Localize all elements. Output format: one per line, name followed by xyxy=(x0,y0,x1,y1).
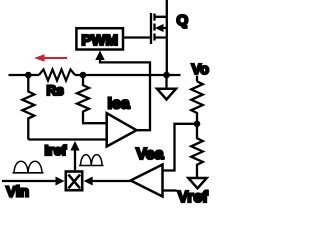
wire Vea output to multiplier xyxy=(91,180,131,182)
red arrow current direction xyxy=(34,54,67,61)
arrowhead Vin into multiplier xyxy=(56,177,65,186)
svg-text:Rs: Rs xyxy=(47,83,64,98)
resistor left sense divider (vertical below node A) xyxy=(22,75,34,140)
svg-text:PWM: PWM xyxy=(81,32,118,49)
arrowhead Vea output into multiplier xyxy=(84,177,93,186)
transistor Q (N-MOSFET) xyxy=(151,13,167,44)
multiplier X1 xyxy=(66,172,82,191)
svg-text:Vea: Vea xyxy=(136,146,164,163)
svg-text:Vo: Vo xyxy=(192,62,210,78)
node B junction dot right of Rs xyxy=(80,72,87,79)
ground (below divider lower resistor) xyxy=(188,178,206,188)
wire Vo to divider xyxy=(196,76,198,82)
waveform rectified sine at Vea output xyxy=(79,155,104,166)
wire right resistor to Iea upper input xyxy=(82,122,107,124)
node C junction dot at MOSFET source xyxy=(163,72,170,79)
op-amp Iea xyxy=(107,113,137,146)
wire divider tap to Vea upper input xyxy=(163,124,198,171)
waveform rectified sine at Vin xyxy=(13,161,44,173)
wire PWM output to gate xyxy=(124,36,150,38)
op-amp Vea (pointing left) xyxy=(131,165,163,197)
wire sense rail (top horizontal net) xyxy=(9,74,181,76)
resistor Rs (horizontal zigzag on rail) xyxy=(39,69,75,80)
resistor right sense divider (vertical below node B) xyxy=(77,75,89,123)
PWM block xyxy=(76,28,123,49)
resistor divider lower xyxy=(191,124,203,178)
Iref arrow (multiplier output up into rail) xyxy=(74,149,76,170)
svg-text:Vref: Vref xyxy=(178,189,209,204)
svg-text:Iref: Iref xyxy=(45,142,67,158)
resistor divider upper xyxy=(191,81,203,123)
wire Iea output feedback to PWM xyxy=(100,58,150,130)
wire Iref rail (lower input of Iea) xyxy=(28,138,106,140)
svg-text:Vin: Vin xyxy=(6,183,29,200)
wire Vref to Vea lower input xyxy=(163,189,177,191)
node D junction dot divider mid xyxy=(194,121,201,128)
wire Vin input xyxy=(2,180,58,182)
svg-text:Q: Q xyxy=(177,12,189,29)
arrowhead into PWM bottom xyxy=(95,51,104,61)
ground (below node C) xyxy=(165,75,167,88)
svg-text:Iea: Iea xyxy=(108,96,130,113)
node A junction dot left xyxy=(25,72,32,79)
